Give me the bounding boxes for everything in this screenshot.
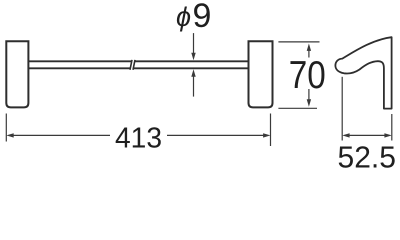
413 right extension line bbox=[270, 114, 272, 147]
52.5 right extension line bbox=[391, 114, 393, 141]
left end bracket bbox=[6, 41, 28, 107]
bar rod (right piece) bbox=[133, 61, 248, 68]
bar rod (left piece) bbox=[29, 61, 132, 68]
svg-text:52.5: 52.5 bbox=[338, 139, 397, 172]
phi9 upper arrow bbox=[191, 33, 195, 60]
svg-text:9: 9 bbox=[193, 0, 212, 35]
right end bracket bbox=[249, 41, 273, 107]
52.5 left extension line bbox=[341, 77, 343, 141]
52.5 dimension line with arrowheads bbox=[342, 133, 392, 137]
413 dimension line with arrowheads bbox=[6, 133, 270, 137]
break symbol cut lines bbox=[130, 60, 135, 70]
70 dimension line with arrowheads bbox=[307, 44, 311, 107]
413 left extension line bbox=[5, 114, 7, 142]
70 top extension line bbox=[278, 41, 319, 43]
70 bottom extension line bbox=[278, 107, 317, 109]
svg-text:70: 70 bbox=[289, 54, 326, 97]
svg-text:ϕ: ϕ bbox=[176, 2, 191, 32]
side-view hook bracket profile bbox=[335, 37, 391, 108]
phi9 lower arrow bbox=[191, 69, 195, 96]
svg-text:413: 413 bbox=[115, 122, 162, 154]
